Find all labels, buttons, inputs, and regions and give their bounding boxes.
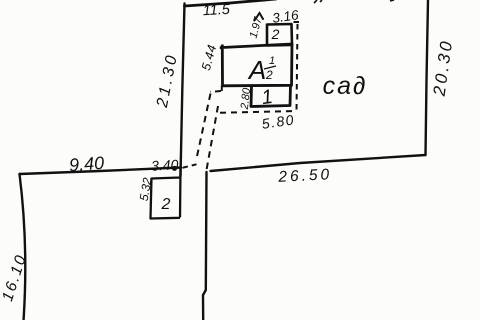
wire top boundary line (11.5 side) [185, 0, 277, 6]
node junction dot [172, 166, 177, 171]
svg-text:11.5: 11.5 [202, 2, 231, 19]
dashed left diagonal path [196, 94, 211, 162]
dashed offset bottom of buildings [220, 111, 297, 113]
svg-text:2: 2 [271, 26, 280, 42]
svg-text:9.40: 9.40 [68, 153, 104, 175]
wire left lower boundary (16.10 side) [20, 174, 26, 320]
wire left slant boundary (21.30 side) [181, 4, 185, 177]
svg-text:са∂: са∂ [323, 72, 368, 100]
wire middle vertical line to bottom edge [203, 172, 207, 320]
structure 2 (bottom square) [151, 168, 181, 219]
arrow near 1.97 [255, 13, 264, 21]
structure 2 (top small square) [267, 24, 292, 46]
dashed corner at building A bottom-left [211, 86, 222, 92]
wire 9.40 boundary line [20, 168, 182, 175]
svg-text:2: 2 [265, 68, 273, 82]
svg-text:А: А [247, 55, 266, 85]
structure 1 (lower square of building) [251, 85, 291, 107]
dashed right diagonal path [207, 106, 219, 170]
wire right boundary (20.30 side) [426, 0, 429, 155]
wire 26.50 boundary line [211, 155, 426, 171]
dashed offset right side of buildings [294, 22, 300, 111]
dashed junction connector [183, 164, 197, 168]
node top-right cut text remnant [314, 0, 394, 3]
svg-text:2: 2 [161, 196, 171, 213]
building A outline [220, 44, 292, 86]
svg-text:1: 1 [269, 55, 275, 67]
label A 1/2 [247, 55, 276, 85]
svg-text:26.50: 26.50 [277, 166, 333, 186]
svg-text:3.40: 3.40 [151, 156, 179, 173]
